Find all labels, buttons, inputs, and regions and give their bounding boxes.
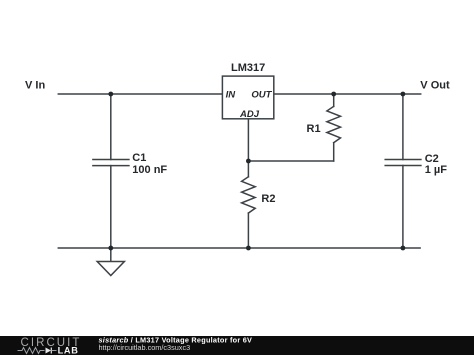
wire ADJ to R1 horizontal [248,160,333,162]
wire ADJ vertical [247,119,249,161]
wire R1 top [333,94,335,106]
resistor R2 zigzag body [242,177,256,213]
IC LM317 box [222,76,273,119]
svg-text:http://circuitlab.com/c3suxc3: http://circuitlab.com/c3suxc3 [99,343,191,352]
footer bar background [0,336,474,355]
node junction at V Out / C2 [401,92,406,97]
svg-text:1 µF: 1 µF [425,164,448,176]
svg-text:C1: C1 [132,152,146,164]
node junction at ground [108,246,113,251]
svg-text:100 nF: 100 nF [132,164,167,176]
svg-text:V Out: V Out [420,80,450,92]
wire C1 vertical top [110,94,112,160]
svg-text:R1: R1 [307,123,321,135]
ground stub [110,248,112,262]
wire C1 vertical bottom [110,166,112,248]
wire R1 bottom [333,143,335,161]
wire top left (V In to LM317 IN pin) [58,93,222,95]
node junction at R2 bottom [246,246,251,251]
svg-text:ADJ: ADJ [239,109,260,120]
svg-text:IN: IN [226,89,237,100]
node junction at C2 bottom [401,246,406,251]
capacitor C2 plates [385,160,421,166]
resistor R1 zigzag body [327,106,341,142]
capacitor C1 plates [93,160,129,166]
logo waveform squiggle [18,348,45,354]
svg-text:R2: R2 [261,193,275,205]
ground triangle [97,262,124,276]
svg-text:LM317: LM317 [231,62,265,74]
logo diode symbol [46,348,57,354]
wire C2 vertical bottom [402,166,404,249]
wire R2 top [247,161,249,177]
node junction at C1 top [108,92,113,97]
node junction at ADJ/R2 [246,159,251,164]
wire bottom rail [58,247,420,249]
svg-text:OUT: OUT [251,89,272,100]
svg-text:V In: V In [25,80,45,92]
svg-text:LAB: LAB [58,346,79,355]
node junction at R1 top [331,92,336,97]
wire R2 bottom [247,213,249,248]
wire LM317 OUT to V Out [274,93,421,95]
wire C2 vertical top [402,94,404,160]
